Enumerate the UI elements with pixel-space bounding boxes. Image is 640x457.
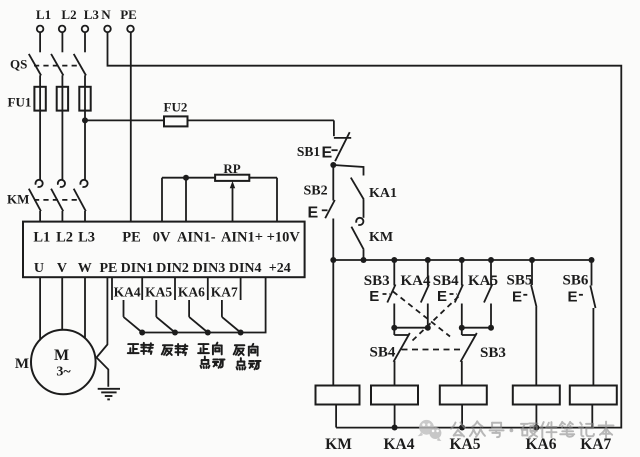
svg-text:+10V: +10V bbox=[267, 230, 301, 246]
svg-text:KA6: KA6 bbox=[178, 284, 205, 299]
svg-text:KA7: KA7 bbox=[211, 284, 238, 299]
svg-text:DIN1: DIN1 bbox=[121, 261, 154, 276]
svg-text:SB4: SB4 bbox=[433, 273, 459, 289]
svg-text:M: M bbox=[54, 347, 69, 364]
svg-text:KA4: KA4 bbox=[114, 284, 141, 299]
svg-text:L3: L3 bbox=[84, 7, 100, 22]
svg-text:SB2: SB2 bbox=[304, 184, 328, 199]
svg-text:SB6: SB6 bbox=[563, 273, 589, 289]
svg-text:DIN4: DIN4 bbox=[229, 261, 262, 276]
svg-text:L1: L1 bbox=[33, 230, 50, 246]
svg-text:L2: L2 bbox=[61, 7, 76, 22]
svg-text:W: W bbox=[78, 261, 92, 276]
svg-text:L2: L2 bbox=[56, 230, 73, 246]
svg-text:PE: PE bbox=[120, 7, 137, 22]
svg-text:V: V bbox=[57, 261, 67, 276]
svg-text:DIN3: DIN3 bbox=[193, 261, 226, 276]
svg-text:U: U bbox=[34, 261, 44, 276]
svg-text:KA5: KA5 bbox=[450, 436, 481, 453]
svg-text:SB4: SB4 bbox=[370, 345, 396, 361]
svg-text:KA5: KA5 bbox=[468, 273, 498, 289]
svg-text:QS: QS bbox=[10, 57, 27, 72]
svg-text:FU2: FU2 bbox=[164, 100, 188, 115]
svg-text:E: E bbox=[568, 289, 578, 306]
svg-text:L1: L1 bbox=[36, 7, 51, 22]
svg-text:AIN1-: AIN1- bbox=[177, 230, 216, 246]
svg-text:KM: KM bbox=[325, 436, 352, 453]
svg-text:KA4: KA4 bbox=[401, 273, 432, 289]
svg-text:SB3: SB3 bbox=[480, 345, 506, 361]
svg-text:FU1: FU1 bbox=[8, 95, 32, 110]
svg-text:KA5: KA5 bbox=[145, 284, 172, 299]
svg-text:E: E bbox=[369, 288, 379, 305]
svg-text:RP: RP bbox=[223, 161, 240, 176]
svg-text:KM: KM bbox=[7, 192, 29, 207]
svg-text:KA1: KA1 bbox=[369, 186, 397, 201]
svg-text:KA7: KA7 bbox=[580, 436, 611, 453]
svg-text:KA6: KA6 bbox=[526, 436, 557, 453]
svg-text:KA4: KA4 bbox=[384, 436, 415, 453]
svg-text:SB3: SB3 bbox=[364, 273, 390, 289]
svg-text:L3: L3 bbox=[78, 230, 95, 246]
svg-text:E: E bbox=[437, 288, 447, 305]
svg-text:M: M bbox=[15, 356, 29, 372]
svg-text:0V: 0V bbox=[153, 230, 171, 246]
svg-text:+24: +24 bbox=[269, 261, 291, 276]
svg-text:E: E bbox=[308, 205, 319, 222]
svg-text:SB5: SB5 bbox=[507, 273, 533, 289]
svg-text:DIN2: DIN2 bbox=[156, 261, 189, 276]
svg-text:SB1: SB1 bbox=[297, 144, 321, 159]
svg-text:PE: PE bbox=[122, 230, 141, 246]
svg-text:E: E bbox=[512, 289, 522, 306]
svg-text:3~: 3~ bbox=[56, 365, 71, 380]
svg-text:AIN1+: AIN1+ bbox=[221, 230, 263, 246]
svg-text:N: N bbox=[101, 7, 111, 22]
svg-text:E: E bbox=[322, 145, 333, 162]
svg-text:PE: PE bbox=[99, 261, 117, 276]
svg-text:KM: KM bbox=[369, 230, 393, 245]
